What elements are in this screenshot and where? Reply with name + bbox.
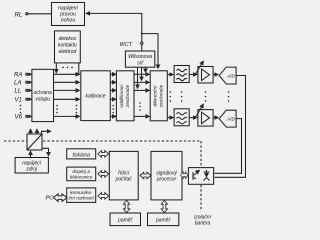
node LL — [15, 88, 28, 95]
svg-text:WCT: WCT — [120, 42, 133, 48]
wire calibration to isolation amp 2 — [110, 81, 116, 83]
node LA — [14, 80, 28, 87]
link PC to komunikační — [53, 194, 66, 202]
node V6 — [15, 114, 28, 121]
filter channel 1 — [174, 66, 189, 83]
block kalibrace — [81, 71, 111, 121]
svg-text:počítač: počítač — [115, 177, 133, 183]
svg-text:ochrana: ochrana — [34, 90, 52, 96]
wire filter to amplifier channel n — [189, 117, 197, 119]
wire differential to filter channel n — [167, 117, 173, 119]
svg-text:A/D: A/D — [226, 117, 235, 122]
isolation barrier dashed line (vertical) — [200, 141, 202, 212]
wire A/D 1 to isolator — [215, 76, 246, 178]
svg-text:ční rozhraní: ční rozhraní — [69, 196, 95, 202]
filter channel n — [174, 109, 189, 126]
wire calibration to isolation amp 4 — [110, 98, 116, 100]
wire calibration to isolation amp 1 — [110, 73, 116, 75]
block tiskárna — [67, 149, 96, 159]
wire detection to lead bus (left) — [55, 63, 57, 73]
dots channel continuation (A/D) — [228, 91, 230, 102]
block paměť (processor) — [148, 213, 179, 226]
svg-text:kalibrace: kalibrace — [85, 94, 105, 100]
link tiskárna to computer — [98, 151, 109, 158]
block napájecí zdroj — [15, 158, 48, 174]
dots between leads (right column) — [76, 105, 78, 114]
wire protection to calibration lead 4 — [54, 98, 80, 100]
wire differential to filter channel 1 — [167, 74, 173, 76]
svg-text:V1: V1 — [15, 97, 22, 104]
svg-text:LL: LL — [15, 88, 22, 95]
wire Wilson net drop 1 — [137, 67, 139, 88]
memory link computer — [123, 200, 129, 212]
node WCT — [120, 42, 144, 48]
wire DC/DC output down-right — [42, 148, 49, 156]
svg-text:diferenční: diferenční — [153, 85, 159, 107]
wire DC/DC output up 2 — [36, 129, 38, 134]
svg-text:zesilovače: zesilovače — [159, 84, 165, 108]
dots under detection block — [62, 67, 73, 69]
link komunikační to computer — [98, 193, 109, 200]
dots channel continuation (bus) — [170, 91, 172, 102]
svg-text:detekce: detekce — [59, 36, 77, 42]
link processor to isolator — [181, 172, 188, 179]
svg-text:oddělovací: oddělovací — [119, 84, 125, 108]
memory link processor — [161, 200, 167, 212]
wire isolation to differential 2 — [134, 81, 149, 83]
wire LA input — [28, 81, 32, 83]
wire calibration to isolation amp V6 — [110, 115, 116, 117]
wire isolation to differential 1 — [134, 73, 149, 75]
svg-text:paměť: paměť — [117, 218, 134, 224]
wire WCT feedback to right-leg-drive — [86, 13, 142, 51]
svg-text:paměť: paměť — [155, 218, 172, 224]
A/D converter channel n — [219, 110, 236, 127]
wire calibration to isolation amp 3 — [110, 89, 116, 91]
wire RA input — [28, 73, 32, 75]
wire protection to calibration lead 1 — [54, 73, 80, 75]
svg-text:RL: RL — [15, 11, 23, 18]
wire isolation to differential 3 — [134, 89, 149, 91]
svg-text:V6: V6 — [15, 114, 23, 121]
block detekce kontaktu elektrod — [55, 31, 81, 63]
node RA — [14, 72, 28, 79]
svg-text:procesor: procesor — [156, 177, 177, 183]
wire protection to calibration lead 3 — [54, 89, 80, 91]
dots calibration outputs — [112, 105, 114, 114]
svg-text:RA: RA — [14, 72, 22, 79]
block Wilsonova síť — [125, 51, 154, 67]
svg-text:LA: LA — [14, 80, 21, 87]
dots isolation outputs — [139, 102, 141, 111]
svg-text:Wilsonova: Wilsonova — [128, 54, 152, 60]
block ochrana vstupu — [32, 69, 54, 121]
wire DC/DC output right — [42, 131, 51, 134]
block signálový procesor — [151, 151, 182, 200]
block diferenční zesilovače — [150, 71, 167, 121]
svg-text:PC: PC — [46, 196, 55, 202]
A/D converter channel 1 — [219, 67, 236, 84]
junction on WCT line — [141, 33, 143, 35]
wire power supply to DC/DC — [30, 151, 32, 158]
block komunikační rozhraní — [67, 188, 96, 203]
amplifier channel 1 (programmable gain) — [196, 61, 213, 83]
junction Wilson drop 1 — [137, 74, 139, 76]
svg-text:nohou: nohou — [61, 18, 76, 24]
svg-text:klávesnice: klávesnice — [70, 175, 93, 181]
optical isolator — [188, 168, 213, 185]
svg-text:kontaktu: kontaktu — [58, 43, 77, 49]
wire protection to calibration lead V6 — [54, 115, 80, 117]
block displej a klávesnice — [67, 167, 96, 181]
block řídící počítač — [109, 151, 138, 200]
svg-text:vstupu: vstupu — [35, 97, 50, 103]
svg-text:elektrod: elektrod — [59, 49, 77, 55]
wire protection to calibration lead 2 — [54, 81, 80, 83]
wire Wilson net drop 3 — [145, 67, 147, 72]
junction Wilson drop 2 — [141, 74, 143, 76]
node RL — [15, 11, 28, 18]
svg-text:bariéra: bariéra — [195, 221, 211, 227]
DC/DC converter — [27, 134, 42, 150]
wire amplifier to A/D channel 1 — [213, 74, 218, 76]
wire V1 input — [28, 98, 32, 100]
svg-text:komunika-: komunika- — [70, 190, 93, 196]
svg-text:zdroj: zdroj — [25, 167, 38, 173]
svg-text:tiskárna: tiskárna — [72, 152, 90, 158]
dots between V1 and V6 — [20, 105, 22, 114]
block paměť (computer) — [110, 213, 141, 226]
link computer to signal processor — [140, 172, 151, 179]
amplifier channel n (programmable gain) — [196, 104, 213, 126]
wire filter to amplifier channel 1 — [189, 74, 197, 76]
wire junction to differential amplifiers — [142, 34, 158, 69]
dots between leads (left column) — [56, 105, 58, 114]
link displej to computer — [98, 171, 109, 178]
label izolační bariéra — [194, 215, 212, 227]
dots channel continuation (amplifier) — [205, 91, 207, 102]
dots channel continuation (filter) — [181, 91, 183, 102]
wire LL input — [28, 89, 32, 91]
wire isolation to differential V6 — [134, 115, 149, 117]
wire detection to lead bus (right) — [78, 63, 80, 74]
isolation barrier dashed line (horizontal) — [4, 140, 201, 142]
svg-text:displej a: displej a — [72, 169, 90, 175]
block napájení pravou nohou — [52, 3, 85, 26]
wire V6 input — [28, 115, 32, 117]
node V1 — [15, 97, 28, 104]
wire DC/DC output up 1 — [30, 129, 32, 134]
svg-text:zesilovače: zesilovače — [125, 84, 131, 108]
wire amplifier to A/D channel n — [213, 117, 218, 119]
svg-text:A/D: A/D — [226, 74, 235, 79]
block oddělovací zesilovače — [116, 71, 134, 121]
wire Wilson net drop 2 — [141, 67, 143, 80]
wire A/D n to isolator — [215, 119, 242, 174]
wire RL to right-leg-drive block — [28, 13, 52, 15]
